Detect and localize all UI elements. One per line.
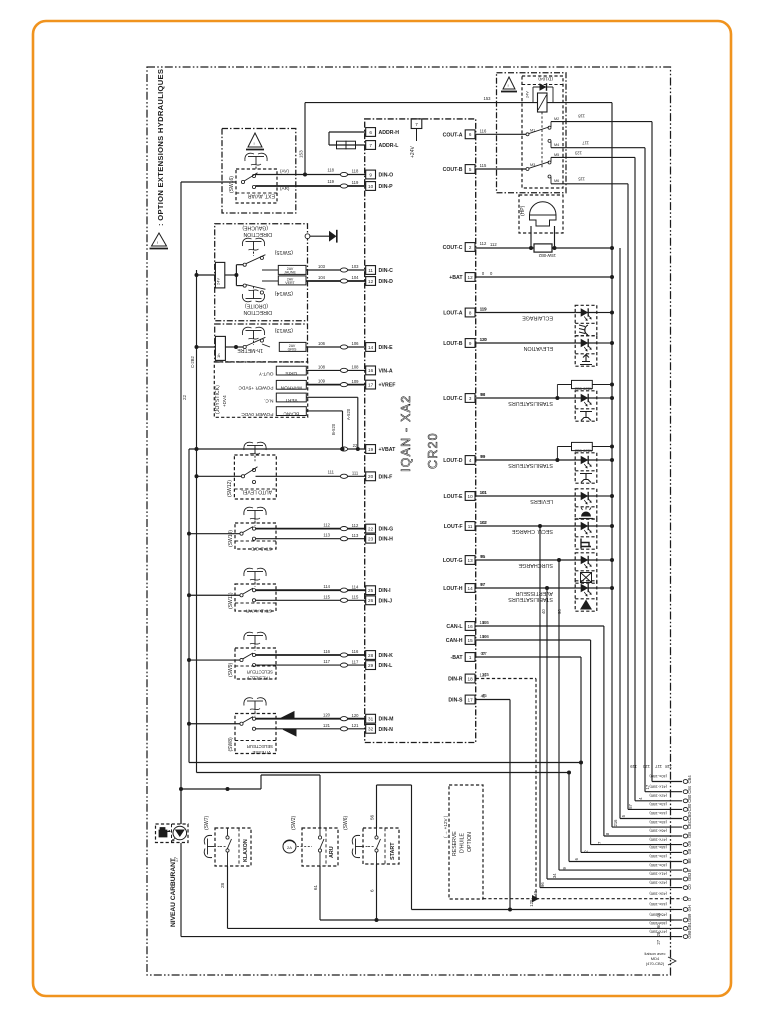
- svg-text:16: 16: [368, 368, 374, 373]
- pin +24V (top edge): [411, 119, 422, 129]
- wire SW8 out 2: [256, 728, 366, 730]
- svg-text:14: 14: [468, 586, 474, 591]
- svg-text:(45x-1B0): (45x-1B0): [649, 820, 667, 825]
- SW16 contacts: [241, 180, 244, 183]
- wire rail 920 (ARU/START bottom): [320, 919, 674, 921]
- svg-text:8: 8: [469, 310, 472, 315]
- svg-text:22: 22: [368, 526, 374, 531]
- svg-text:07: 07: [482, 651, 487, 656]
- svg-text:(46x-1B0): (46x-1B0): [649, 829, 667, 834]
- svg-text:OPTION: OPTION: [467, 832, 473, 852]
- indicator lamp ELEVATION: [575, 336, 597, 366]
- svg-text:-BAT: -BAT: [450, 655, 463, 661]
- svg-text:(40x-1B0): (40x-1B0): [649, 863, 667, 868]
- svg-text:(42x-1B0): (42x-1B0): [649, 794, 667, 799]
- svg-text:115: 115: [578, 177, 585, 182]
- module IQAN-XA2 CR20 outline: [365, 119, 476, 743]
- bus wire x620: [619, 248, 621, 819]
- pin DIN-I (left edge): [366, 586, 376, 595]
- svg-text:34: 34: [552, 873, 557, 878]
- svg-text:120: 120: [642, 764, 650, 769]
- svg-text:+VREF: +VREF: [379, 383, 396, 389]
- bracket above SW15: [242, 238, 251, 246]
- svg-text:(47x-1B0): (47x-1B0): [649, 837, 667, 842]
- svg-text:M4: M4: [554, 143, 559, 147]
- svg-text:C0: C0: [687, 884, 692, 890]
- wire START top: [376, 785, 378, 828]
- svg-text:(48x-1B0): (48x-1B0): [649, 845, 667, 850]
- wire DIN-S: [476, 699, 510, 701]
- pin DIN-N (left edge): [366, 724, 376, 733]
- svg-text:25: 25: [368, 588, 374, 593]
- svg-text:(D104): (D104): [538, 76, 553, 82]
- enclosure JOYSTICK: [214, 362, 307, 417]
- svg-text:+DV4: +DV4: [222, 395, 227, 407]
- svg-text:120: 120: [323, 713, 331, 718]
- stub wire 13: [540, 887, 682, 889]
- svg-text:24V: 24V: [216, 278, 221, 285]
- svg-text:G9: G9: [687, 840, 692, 846]
- svg-text:97: 97: [480, 582, 485, 587]
- stub wire 4: [628, 808, 682, 810]
- svg-text:NIVEAU CARBURANT: NIVEAU CARBURANT: [170, 858, 177, 927]
- svg-text:(42x-1B0): (42x-1B0): [649, 880, 667, 885]
- svg-text:GB1: GB1: [687, 921, 692, 930]
- svg-text:105: 105: [482, 620, 490, 625]
- svg-text:28: 28: [220, 882, 225, 888]
- dashed reserve wire: [483, 898, 536, 900]
- svg-text:CAN-L: CAN-L: [446, 624, 463, 630]
- pin LOUT-D (right edge): [465, 456, 475, 465]
- stub wire 3: [635, 800, 682, 802]
- pin ADDR-H (left edge): [366, 128, 376, 137]
- indicator lamp STABILISATEURS: [575, 391, 597, 421]
- indicator lamp AVERTISSEUR: [575, 581, 597, 611]
- branch to connector: [557, 558, 561, 562]
- svg-text:40: 40: [533, 890, 538, 895]
- svg-text:ADDR-L: ADDR-L: [379, 143, 400, 149]
- svg-text:95: 95: [480, 554, 485, 559]
- svg-text:216: 216: [613, 819, 618, 827]
- svg-text:96: 96: [557, 609, 562, 614]
- svg-text:5: 5: [469, 167, 472, 172]
- svg-text:CBD: CBD: [687, 812, 692, 821]
- svg-text:11: 11: [468, 524, 473, 529]
- svg-text:116: 116: [480, 129, 487, 134]
- svg-text:A-520: A-520: [346, 408, 351, 420]
- svg-text:DIRECTION: DIRECTION: [243, 309, 272, 315]
- pin LOUT-E (right edge): [465, 492, 475, 501]
- svg-text:120: 120: [352, 713, 360, 718]
- pin DIN-L (left edge): [366, 661, 376, 670]
- wire CAN-L: [476, 625, 604, 627]
- svg-text:57: 57: [628, 803, 633, 808]
- svg-text:103: 103: [318, 264, 326, 269]
- svg-text:19: 19: [368, 447, 374, 452]
- pin CAN-H (right edge): [465, 636, 475, 645]
- relay suppression diode: [532, 87, 534, 103]
- svg-text:LOUT-C: LOUT-C: [443, 396, 463, 402]
- svg-text:10: 10: [468, 494, 474, 499]
- wire SW12 to DIN-F: [256, 475, 366, 477]
- svg-text:7: 7: [369, 143, 372, 148]
- wire SW8 common feed: [189, 723, 240, 725]
- svg-text:POWER 0VDC: POWER 0VDC: [241, 411, 274, 417]
- svg-text:118: 118: [352, 169, 359, 174]
- wire SW11 out 1: [256, 589, 366, 591]
- svg-text:VERT: VERT: [285, 397, 298, 403]
- svg-text:108: 108: [318, 364, 326, 369]
- svg-text:OUT-Y: OUT-Y: [258, 370, 273, 376]
- wire SW11 common feed: [189, 594, 240, 596]
- svg-text:12: 12: [368, 279, 374, 284]
- pin COUT-C (right edge): [465, 243, 475, 252]
- svg-text:LOUT-E: LOUT-E: [443, 494, 463, 500]
- svg-text:STAB G/D: STAB G/D: [250, 547, 272, 552]
- pin DIN-F (left edge): [366, 472, 376, 481]
- stub wire 7: [604, 835, 682, 837]
- wire SW9 out 2: [256, 664, 366, 666]
- svg-text:CAN-H: CAN-H: [446, 638, 463, 644]
- svg-text:45: 45: [482, 693, 487, 698]
- relay coil: [538, 93, 548, 112]
- stub wire 6: [612, 826, 682, 828]
- bus wire x559: [558, 560, 560, 870]
- ADDR jumper wiring: [329, 131, 366, 133]
- svg-text:118: 118: [327, 168, 334, 173]
- svg-text:40: 40: [541, 609, 546, 614]
- svg-text:B8: B8: [687, 858, 692, 864]
- enclosure DIRECTION SW15/SW14: [215, 224, 308, 321]
- pin LOUT-C (right edge): [465, 394, 475, 403]
- wire rail 909 (START): [412, 909, 675, 911]
- svg-text:120: 120: [480, 337, 488, 342]
- pin +VREF (left edge): [366, 380, 376, 389]
- svg-text:GH: GH: [687, 905, 692, 911]
- svg-text:27: 27: [656, 939, 661, 944]
- joystick GRIS OUT-Y: [276, 366, 306, 375]
- horn HP enclosure: [519, 195, 563, 233]
- wire ARU top feed: [260, 775, 262, 789]
- branch to connector: [545, 586, 549, 590]
- wire rail 936 (fuel gauge): [181, 936, 674, 938]
- svg-text:(44x-1B0): (44x-1B0): [649, 902, 667, 907]
- svg-text:116: 116: [323, 649, 330, 654]
- svg-text:114: 114: [352, 584, 359, 589]
- svg-text:(GAUCHE): (GAUCHE): [242, 225, 268, 231]
- svg-text:(AV): (AV): [280, 169, 289, 174]
- SW8 contacts: [240, 722, 243, 725]
- svg-text:(JOYSTICK): (JOYSTICK): [215, 385, 221, 414]
- svg-text:IQAN - XA2: IQAN - XA2: [399, 395, 413, 472]
- bracket SW12: [244, 442, 253, 450]
- svg-text:119: 119: [352, 180, 359, 185]
- svg-text:(40x-1B0): (40x-1B0): [649, 774, 667, 779]
- enclosure SW11: [235, 584, 276, 611]
- label boxes DIRECTION outputs: [278, 265, 306, 274]
- svg-text:GRIS: GRIS: [285, 370, 297, 376]
- pin -BAT (right edge): [465, 653, 475, 662]
- stub wire 2: [645, 791, 682, 793]
- wire DIR D to DIN-D: [262, 280, 278, 282]
- svg-text:(SW11): (SW11): [228, 592, 234, 609]
- svg-text:23: 23: [368, 537, 374, 542]
- stub wire 8: [591, 844, 682, 846]
- indicator lamp LEVIERS: [575, 489, 597, 519]
- svg-text:119: 119: [327, 179, 334, 184]
- stub wire 11: [559, 869, 682, 871]
- enclosure SW8: [235, 714, 276, 754]
- svg-text:+BAT: +BAT: [449, 275, 463, 281]
- wire SW10 out 1: [256, 528, 366, 530]
- svg-text:DIN-E: DIN-E: [379, 345, 394, 351]
- stub wire 14: [536, 898, 682, 900]
- joystick MARRON POWER +5VDC: [276, 380, 306, 389]
- svg-text:15W-0B2: 15W-0B2: [538, 253, 556, 258]
- svg-text:114: 114: [323, 584, 330, 589]
- svg-text:DIN-K: DIN-K: [379, 653, 394, 659]
- svg-text:KLAXON: KLAXON: [243, 839, 249, 862]
- bracket below SW14 (mirrored): [242, 286, 264, 302]
- svg-text:(470-CB2): (470-CB2): [646, 961, 665, 966]
- svg-text:DIN-F: DIN-F: [379, 474, 393, 480]
- branch to connector: [538, 524, 542, 528]
- svg-text:4: 4: [469, 458, 472, 463]
- stub wire 9: [581, 851, 682, 853]
- svg-text:LEVIERS: LEVIERS: [530, 498, 553, 504]
- svg-text:(SW12): (SW12): [227, 480, 233, 497]
- svg-text:LOUT-H: LOUT-H: [443, 586, 463, 592]
- svg-text:(SW15): (SW15): [275, 249, 293, 255]
- svg-text:DIN-H: DIN-H: [379, 537, 394, 543]
- svg-text:SELECTEUR: SELECTEUR: [247, 670, 273, 675]
- pin DIN-H (left edge): [366, 534, 376, 543]
- enclosure RESERVE D HUILE OPTION: [449, 785, 483, 899]
- svg-text:VITESSE: VITESSE: [252, 750, 271, 755]
- indicator lamp ECLAIRAGE: [575, 305, 597, 335]
- svg-text:13: 13: [468, 558, 474, 563]
- switch SW16 inner box: [236, 169, 277, 203]
- svg-text:117: 117: [655, 764, 662, 769]
- svg-text:ARU: ARU: [329, 846, 335, 858]
- ADDR jumper plugs: [337, 141, 347, 149]
- bracket SW11: [244, 568, 253, 576]
- enclosure relay D104: [497, 73, 567, 193]
- wire +BAT pin to rail: [476, 276, 612, 278]
- wire SW13 to DIN-E: [262, 344, 270, 347]
- svg-text:106: 106: [318, 341, 326, 346]
- svg-text:(HP): (HP): [520, 205, 526, 216]
- svg-text:LOUT-A: LOUT-A: [443, 311, 463, 317]
- svg-text:STAB AV/AR: STAB AV/AR: [245, 609, 272, 614]
- pin DIN-E (left edge): [366, 343, 376, 352]
- SW10 contacts: [240, 532, 243, 535]
- indicator lamp SECU. CHARGE: [575, 519, 597, 549]
- relay D104 inner box: [522, 76, 563, 188]
- svg-text:117: 117: [352, 659, 359, 664]
- wire rail 928 (KLAXON bottom): [228, 927, 675, 929]
- wire 153 relay coil feed: [304, 103, 306, 175]
- SW11 contacts: [240, 594, 243, 597]
- svg-text:GB3: GB3: [687, 872, 692, 881]
- svg-text:DIN-R: DIN-R: [448, 677, 463, 683]
- svg-text:112: 112: [490, 242, 497, 247]
- svg-text:M2: M2: [554, 117, 559, 121]
- svg-text:START: START: [390, 842, 396, 860]
- feed box SW13: [215, 336, 225, 360]
- svg-text:116: 116: [352, 649, 359, 654]
- svg-text:STABILISATEURS: STABILISATEURS: [508, 400, 553, 406]
- svg-text:153: 153: [484, 96, 492, 101]
- svg-text:2A: 2A: [287, 845, 292, 850]
- svg-text:(43x-1B0): (43x-1B0): [649, 802, 667, 807]
- svg-text:6: 6: [369, 130, 372, 135]
- wire CAN-H: [476, 639, 591, 641]
- indicator lamp STABILISATEURS: [575, 453, 597, 483]
- svg-text:G8: G8: [687, 848, 692, 854]
- relay linkage: [541, 112, 543, 168]
- pin DIN-J (left edge): [366, 596, 376, 605]
- svg-text:125: 125: [482, 672, 490, 677]
- wire +VBAT distribution: [189, 448, 366, 450]
- svg-text:LOUT-G: LOUT-G: [443, 558, 463, 564]
- bracket SW8: [244, 698, 253, 706]
- svg-text:!: !: [508, 83, 509, 88]
- pin +BAT (right edge): [465, 273, 475, 282]
- pin COUT-B (right edge): [465, 165, 475, 174]
- wire SW16 AR to DIN-P: [256, 185, 366, 187]
- wire SW9 common feed: [189, 659, 240, 661]
- outer dash-dot frame: [147, 67, 671, 975]
- svg-text:104: 104: [318, 275, 326, 280]
- svg-text:119: 119: [480, 307, 487, 312]
- svg-text:GRIS: GRIS: [288, 348, 297, 352]
- svg-text:ECLAIRAGE: ECLAIRAGE: [522, 315, 553, 321]
- svg-text:108: 108: [352, 365, 360, 370]
- svg-text:CB4: CB4: [687, 775, 692, 784]
- svg-text:(43x-1B0): (43x-1B0): [649, 891, 667, 896]
- pin DIN-S (right edge): [465, 695, 475, 704]
- svg-text:104: 104: [352, 275, 360, 280]
- svg-text:( → +12V ): ( → +12V ): [443, 815, 448, 838]
- svg-text:117: 117: [323, 659, 330, 664]
- bus wire x536: [535, 679, 537, 899]
- svg-text:111: 111: [328, 470, 335, 475]
- svg-text:26: 26: [368, 598, 374, 603]
- svg-text:109: 109: [352, 379, 360, 384]
- trunk wire T2: [188, 449, 190, 763]
- svg-text:(45x-1B0): (45x-1B0): [649, 913, 667, 918]
- bus wire x581: [580, 657, 582, 852]
- svg-text:DIN-J: DIN-J: [379, 598, 393, 604]
- svg-text:DIN-G: DIN-G: [379, 527, 394, 533]
- svg-text:12: 12: [468, 275, 474, 280]
- svg-text:M3: M3: [530, 163, 535, 167]
- pin VIN-A (left edge): [366, 366, 376, 375]
- svg-text:LOUT-F: LOUT-F: [444, 524, 463, 530]
- svg-text:101: 101: [480, 490, 488, 495]
- svg-text:61: 61: [313, 884, 318, 890]
- svg-text:98: 98: [480, 392, 485, 397]
- svg-text:113: 113: [323, 533, 330, 538]
- enclosure SW9: [235, 648, 276, 679]
- svg-text:31: 31: [368, 717, 374, 722]
- svg-text:D'HUILE: D'HUILE: [460, 832, 466, 853]
- svg-text:22: 22: [182, 394, 187, 400]
- dashed wire DIN-R reserve option: [476, 678, 536, 680]
- svg-text:VIN-A: VIN-A: [379, 368, 393, 374]
- svg-text:(SW7): (SW7): [204, 816, 210, 831]
- svg-text:112: 112: [323, 523, 330, 528]
- svg-text:17: 17: [468, 697, 474, 702]
- svg-text:GB9: GB9: [687, 913, 692, 922]
- pin DIN-R (right edge): [465, 674, 475, 683]
- enclosure SW13: [215, 324, 308, 362]
- pin LOUT-B (right edge): [465, 339, 475, 348]
- svg-text:15: 15: [468, 638, 474, 643]
- pin +VBAT (left edge): [366, 445, 376, 454]
- relay contact 2: [476, 168, 526, 170]
- svg-text:!: !: [254, 141, 255, 146]
- off sheet arrow DIRECTION: [305, 234, 310, 239]
- stub wire 1: [652, 781, 682, 783]
- svg-text:C80: C80: [687, 803, 692, 811]
- svg-text:121: 121: [323, 723, 331, 728]
- bus wire x645: [644, 148, 646, 792]
- bus wire x652: [651, 122, 653, 782]
- dropping resistor: [556, 447, 558, 461]
- wire SW12 feed: [197, 475, 242, 477]
- wire DIR G to DIN-C: [262, 269, 278, 271]
- bus wire x612: [611, 103, 613, 828]
- relay contact 1: [476, 133, 526, 135]
- svg-text:112: 112: [480, 241, 487, 246]
- legend warning triangle: [152, 233, 167, 246]
- svg-text:COUT-A: COUT-A: [443, 132, 463, 138]
- svg-text:A520-0B2: A520-0B2: [574, 449, 593, 454]
- svg-text:6: 6: [469, 132, 472, 137]
- svg-text:DIN-I: DIN-I: [379, 588, 392, 594]
- bracket SW10: [244, 507, 253, 515]
- wire coil to +BAT rail: [547, 102, 612, 104]
- svg-text:DIN-C: DIN-C: [379, 268, 394, 274]
- label box SW13 output: [279, 342, 306, 351]
- svg-text:M1: M1: [530, 129, 535, 133]
- svg-text:M6: M6: [554, 179, 559, 183]
- pin DIN-G (left edge): [366, 524, 376, 533]
- svg-text:GB: GB: [687, 832, 692, 838]
- svg-text:17: 17: [368, 382, 374, 387]
- svg-text:DIN-D: DIN-D: [379, 279, 394, 285]
- svg-text:JAUNE: JAUNE: [284, 271, 296, 275]
- pin LOUT-F (right edge): [465, 522, 475, 531]
- wire SW16 common: [181, 181, 236, 183]
- svg-text:CBC: CBC: [687, 820, 692, 829]
- svg-text:DIN-O: DIN-O: [379, 173, 394, 179]
- trunk wire T3: [196, 270, 198, 773]
- SW9 contacts: [240, 658, 243, 661]
- bus wire x635: [634, 157, 636, 800]
- svg-text:COUT-B: COUT-B: [443, 167, 463, 173]
- svg-text:115: 115: [323, 594, 330, 599]
- pin COUT-A (right edge): [465, 130, 475, 139]
- svg-text:(DROITE): (DROITE): [245, 303, 268, 309]
- svg-text:DIN-L: DIN-L: [379, 663, 394, 669]
- wire SW13 feed: [197, 346, 216, 348]
- svg-text:123: 123: [574, 151, 582, 156]
- horn legs: [530, 226, 532, 248]
- svg-text:(41x-1B0): (41x-1B0): [649, 872, 667, 877]
